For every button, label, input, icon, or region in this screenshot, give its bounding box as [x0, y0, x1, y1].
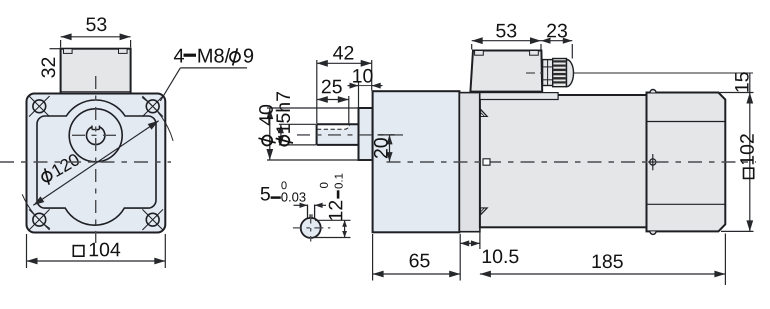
- rear endbell (fan cover): [647, 93, 726, 232]
- main centerline right part: [387, 161, 757, 163]
- clamp detail triangle bottom: [481, 208, 488, 215]
- bolt circle diam120 arcs: [142, 97, 173, 141]
- terminal box (side): [470, 51, 542, 92]
- dim sq104 (front): [27, 234, 166, 268]
- label 4-M8/dia9 with leader: [160, 48, 253, 101]
- cable line: [573, 72, 753, 74]
- 4 mounting holes M8 with crosses: [29, 96, 50, 117]
- main horizontal centerline: [0, 161, 171, 163]
- dim 42: [317, 46, 372, 124]
- shaft centerline (side): [297, 134, 404, 136]
- shaft bore with keyway (front): [86, 126, 104, 145]
- flange (front view, square 104): [27, 94, 166, 233]
- dim 32 (front box height): [41, 49, 60, 78]
- center screw on joint: [648, 154, 658, 170]
- boss circle (diam 40): [69, 109, 122, 162]
- dim diam15h7: [276, 92, 316, 146]
- gland centerline: [526, 72, 542, 74]
- dim 20 offset: [374, 135, 395, 162]
- inspection square on motor face: [483, 159, 490, 165]
- screw bumps: [650, 90, 656, 93]
- dim 10: [348, 69, 383, 108]
- dim 10.5: [460, 230, 518, 264]
- dim diam120 diagonal: [33, 121, 158, 206]
- clamp detail triangle top: [481, 109, 488, 116]
- centerline shaft horizontal (front): [72, 134, 120, 136]
- dim 185: [480, 234, 726, 286]
- keyway cross-section detail: [293, 205, 330, 242]
- dim sq102: [719, 93, 754, 232]
- dim 53 (front box): [61, 17, 131, 47]
- gearbox inner housing outline: [37, 100, 156, 225]
- dim 5 keyway width: [261, 181, 326, 208]
- dim 12 keyway depth: [313, 174, 351, 238]
- motor body (side): [480, 95, 647, 227]
- dim 53 motor box: [472, 24, 541, 50]
- dim 15: [735, 72, 750, 92]
- spacer flange 10.5: [459, 93, 480, 232]
- cable gland: [543, 59, 574, 87]
- terminal box plinth: [480, 93, 558, 100]
- output shaft (side): [317, 124, 359, 145]
- label phi120: [39, 152, 82, 186]
- dim diam40: [259, 105, 373, 160]
- dim 65: [373, 234, 461, 281]
- dim 25: [317, 80, 349, 124]
- terminal box (front view): [61, 49, 131, 94]
- keyway hidden line (side): [317, 125, 350, 130]
- shaft collar diam40: [359, 108, 373, 160]
- gearbox (side): [373, 91, 460, 232]
- dim 23 gland: [541, 24, 572, 59]
- centerline vertical (front): [95, 76, 97, 243]
